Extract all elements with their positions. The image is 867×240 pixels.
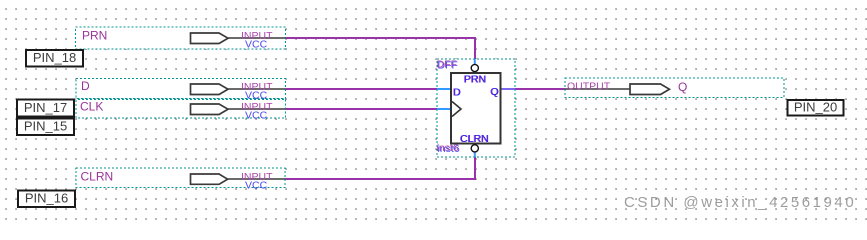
- svg-text:VCC: VCC: [245, 39, 268, 51]
- svg-text:D: D: [453, 87, 461, 99]
- pin box PIN_18: [26, 50, 83, 67]
- wire CLRN net: [285, 157, 475, 179]
- wire PRN net (input to DFF preset): [286, 38, 476, 59]
- input pin symbol (D): [191, 81, 286, 102]
- wire CLK net: [286, 108, 438, 110]
- pin box PIN_15: [17, 119, 74, 136]
- svg-text:PIN_18: PIN_18: [33, 50, 76, 65]
- bubble PRN (top): [471, 64, 478, 71]
- pin stub CLK (blue): [437, 108, 451, 110]
- svg-text:CLRN: CLRN: [460, 133, 489, 145]
- svg-text:PIN_16: PIN_16: [25, 191, 68, 206]
- svg-text:PIN_15: PIN_15: [24, 119, 67, 134]
- input connector CLRN selection box: [76, 168, 285, 188]
- DFF selection box: [437, 59, 515, 157]
- pin box PIN_16: [18, 191, 75, 208]
- input connector PRN selection box: [76, 27, 286, 49]
- input pin symbol (CLRN): [191, 171, 286, 192]
- svg-text:PRN: PRN: [464, 74, 486, 86]
- pin stub Q (violet): [501, 88, 516, 90]
- pin stub PRN (blue): [474, 59, 476, 64]
- svg-text:CLRN: CLRN: [81, 170, 114, 184]
- svg-text:D: D: [81, 79, 90, 93]
- pin box PIN_17: [17, 100, 74, 117]
- wire Q net: [515, 88, 565, 90]
- input pin symbol (CLK): [191, 101, 286, 122]
- input connector D selection box: [76, 79, 286, 99]
- svg-text:CSDN @weixin_42561940: CSDN @weixin_42561940: [624, 194, 856, 211]
- svg-text:VCC: VCC: [245, 180, 268, 192]
- bubble CLRN (bottom): [471, 145, 478, 152]
- input connector CLK selection box: [76, 99, 286, 118]
- svg-text:Q: Q: [491, 86, 499, 98]
- svg-text:OUTPUT: OUTPUT: [567, 80, 611, 92]
- svg-text:PRN: PRN: [82, 29, 107, 43]
- pin box PIN_20: [788, 100, 844, 116]
- svg-text:PIN_17: PIN_17: [24, 100, 67, 115]
- svg-text:CLK: CLK: [80, 100, 103, 114]
- svg-text:PIN_20: PIN_20: [794, 100, 837, 115]
- svg-text:DFF: DFF: [437, 59, 457, 71]
- clock triangle: [452, 102, 461, 117]
- output connector Q selection box: [565, 78, 784, 98]
- wire D net: [286, 88, 438, 90]
- pin stub D (blue): [437, 88, 451, 90]
- svg-text:Q: Q: [678, 80, 687, 94]
- input pin symbol (PRN): [191, 30, 286, 51]
- svg-text:VCC: VCC: [245, 110, 268, 122]
- output pin symbol: [565, 80, 669, 94]
- flip-flop DFF (inst6) body: [451, 73, 501, 144]
- pin stub CLRN (blue): [474, 152, 476, 157]
